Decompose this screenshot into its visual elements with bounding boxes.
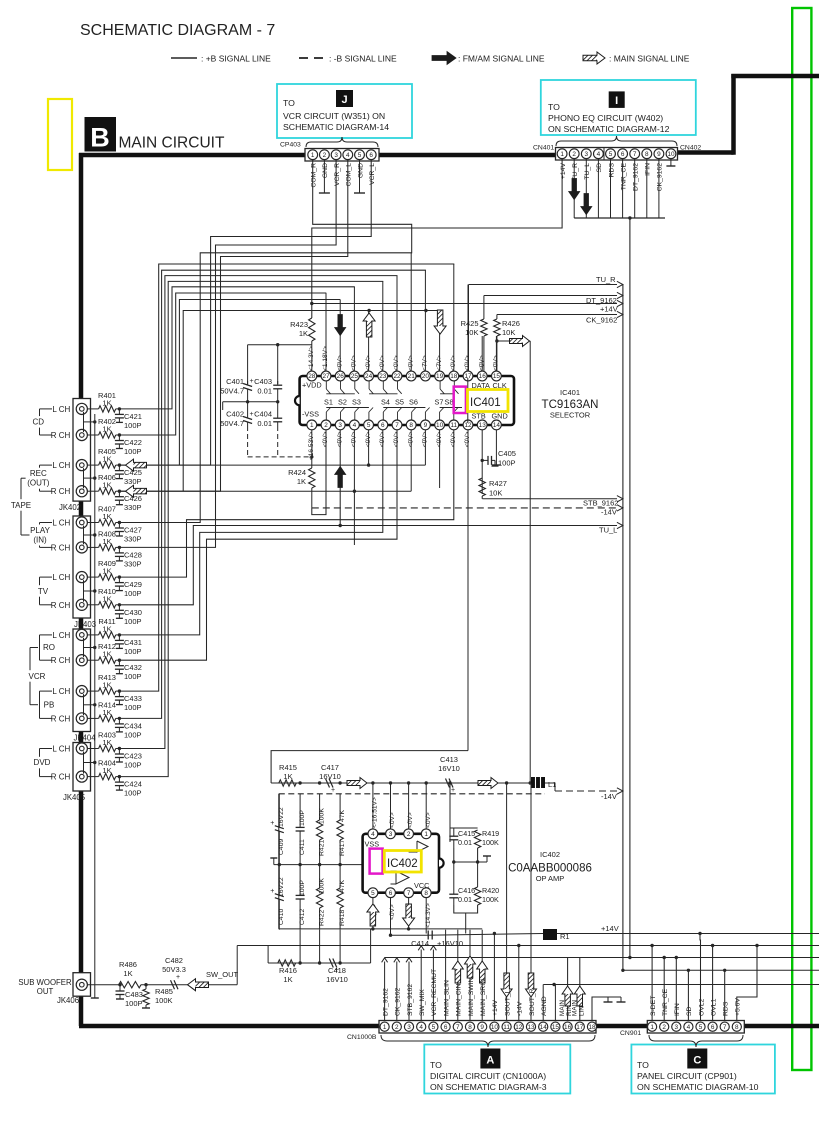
svg-text:47K: 47K <box>339 879 346 892</box>
connector CN401 pin 1 <box>557 149 567 159</box>
wires CN1000B pins 6-9 to ic402 rail <box>445 930 447 1021</box>
callout box J to VCR circuit <box>277 84 412 138</box>
svg-text:+: + <box>250 411 254 418</box>
jack pair ground link <box>83 526 85 545</box>
svg-text:+: + <box>176 974 180 981</box>
group label RO <box>43 642 55 654</box>
svg-text:VSS: VSS <box>365 840 380 849</box>
IC401 pin 9 <box>421 420 431 430</box>
IC401 pin 2 <box>321 420 331 430</box>
svg-text:13: 13 <box>479 422 487 429</box>
IC402 highlight yellow <box>384 851 421 873</box>
svg-text:8: 8 <box>468 1024 472 1031</box>
svg-text:4: 4 <box>353 422 357 429</box>
svg-text:1K: 1K <box>102 766 111 775</box>
RCA jack TV R <box>76 599 87 610</box>
svg-text:S4: S4 <box>381 398 390 407</box>
svg-text:C413: C413 <box>440 755 458 764</box>
svg-text:R CH: R CH <box>51 656 71 665</box>
wire CP403 pin3 route to PLAY R <box>120 160 336 548</box>
wire pin4 stub down <box>353 430 355 545</box>
svg-text:10K: 10K <box>465 328 478 337</box>
svg-text:1K: 1K <box>102 708 111 717</box>
connector CN1000B pin 4 <box>417 1022 426 1031</box>
svg-text:R415: R415 <box>279 763 297 772</box>
svg-text:R416: R416 <box>279 966 297 975</box>
connector CN1000B pin 5 <box>429 1022 438 1031</box>
svg-text:COM_L: COM_L <box>346 163 353 187</box>
svg-text:C424: C424 <box>124 780 142 789</box>
jack group box JK404 <box>73 629 91 732</box>
svg-text:330P: 330P <box>124 477 142 486</box>
svg-text:GND: GND <box>357 163 364 178</box>
svg-text:100P: 100P <box>124 789 142 798</box>
svg-text:SOUT_R: SOUT_R <box>529 988 536 1016</box>
RCA jack CD R <box>76 429 87 440</box>
IC401 pin 6 <box>378 420 388 430</box>
svg-text:CN402: CN402 <box>680 145 701 152</box>
svg-text:1K: 1K <box>102 567 111 576</box>
svg-text:JK405: JK405 <box>63 793 86 802</box>
svg-text:OP AMP: OP AMP <box>536 874 565 883</box>
wire jack TV R to resistor <box>87 604 98 606</box>
wire DVD R after resistor <box>116 776 120 778</box>
capacitor C428 <box>118 547 120 553</box>
IC401 pin 3 <box>335 420 345 430</box>
svg-text:S5: S5 <box>395 398 404 407</box>
svg-text:CN401: CN401 <box>533 145 554 152</box>
svg-text:OVL2: OVL2 <box>698 998 705 1016</box>
connector CN401 pin 9 <box>654 149 664 159</box>
wire CN1000B pin13 SOUT_R from IC402 rail <box>530 784 532 1021</box>
wire pin14 gnd <box>495 430 497 465</box>
svg-text:<0V>: <0V> <box>425 812 432 828</box>
svg-text:MAIN_SWIN: MAIN_SWIN <box>468 977 475 1016</box>
thick border top segment between connectors <box>677 150 734 155</box>
svg-text:L CH: L CH <box>52 573 70 582</box>
svg-text:C418: C418 <box>328 966 346 975</box>
svg-text:R427: R427 <box>489 479 507 488</box>
svg-text:VCR_L: VCR_L <box>369 163 376 185</box>
RCA jack PB L <box>76 686 87 697</box>
svg-text:4: 4 <box>371 831 375 838</box>
wire CN1000B pin14 AGND <box>542 985 544 1021</box>
resistor R417 <box>339 794 341 820</box>
connector CN1000B pin 6 <box>441 1022 450 1031</box>
svg-text:<0V>: <0V> <box>389 904 396 920</box>
svg-text:1K: 1K <box>102 481 111 490</box>
svg-text:R CH: R CH <box>51 543 71 552</box>
resistor R421 <box>319 794 321 820</box>
svg-text:100K: 100K <box>155 996 173 1005</box>
wire CD R after resistor <box>116 434 120 436</box>
wire mid rail C401-C404 <box>223 401 278 403</box>
group label DVD <box>34 757 50 769</box>
rail C414 +14V <box>391 934 734 936</box>
wire nest pin20 to PB R <box>120 270 426 718</box>
capacitor C426 <box>118 491 120 497</box>
svg-text:C402: C402 <box>226 410 244 419</box>
svg-text:MAIN: MAIN <box>559 1000 566 1016</box>
svg-text:C401: C401 <box>226 377 244 386</box>
svg-text:TU_R: TU_R <box>572 163 579 181</box>
svg-text:4: 4 <box>419 1024 423 1031</box>
svg-text:-14V: -14V <box>517 1001 524 1016</box>
svg-text:7: 7 <box>723 1024 727 1031</box>
wire CP403 pin1 route to PLAY L <box>120 160 412 523</box>
svg-text:VCC: VCC <box>414 881 429 890</box>
group label TV <box>37 585 49 597</box>
IC401 highlight yellow around IC401 text <box>468 390 509 412</box>
wire R416 C418 <box>268 962 371 964</box>
wire jack PLAY L to resistor <box>87 522 98 524</box>
svg-text:16: 16 <box>564 1024 572 1031</box>
rail AGND right <box>543 984 819 986</box>
svg-text:10K: 10K <box>502 328 515 337</box>
svg-text:(IN): (IN) <box>33 536 47 545</box>
connector CP403 pin 3 <box>331 150 341 160</box>
svg-text:100P: 100P <box>124 617 142 626</box>
IC401 pin 11 <box>449 420 459 430</box>
capacitor C429 <box>118 577 120 583</box>
svg-text:2: 2 <box>572 151 576 158</box>
connector CN401 pin 10 <box>666 149 676 159</box>
svg-text:R486: R486 <box>119 960 137 969</box>
wire vdd top rail <box>248 344 312 346</box>
svg-text:21: 21 <box>408 373 416 380</box>
svg-text:RDS: RDS <box>723 1001 730 1016</box>
svg-text:1K: 1K <box>283 772 292 781</box>
svg-text:11: 11 <box>503 1024 510 1031</box>
CP403 gnd wire pin5 <box>359 160 361 194</box>
svg-text:MAIN CIRCUIT: MAIN CIRCUIT <box>119 135 225 152</box>
group label REC OUT <box>26 468 51 489</box>
wire DVD L after resistor <box>116 748 120 750</box>
connector CP403 pin 5 <box>355 150 365 160</box>
svg-text:MAIN_CIN: MAIN_CIN <box>456 983 463 1016</box>
svg-text:A: A <box>486 1055 494 1067</box>
svg-text:330P: 330P <box>124 503 142 512</box>
svg-text:10: 10 <box>491 1024 499 1031</box>
wires CN1000B pins 4-5 <box>420 950 422 1021</box>
svg-text:7: 7 <box>456 1024 460 1031</box>
svg-text:S1: S1 <box>324 398 333 407</box>
svg-text:+: + <box>331 787 335 794</box>
svg-text:1K: 1K <box>102 425 111 434</box>
svg-text:28: 28 <box>308 373 316 380</box>
svg-text:<14.3V>: <14.3V> <box>425 903 432 928</box>
svg-text:SCHEMATIC DIAGRAM - 7: SCHEMATIC DIAGRAM - 7 <box>80 22 275 39</box>
IC401 pin 23 <box>378 371 388 381</box>
IC402 bottom pin wires <box>372 898 374 930</box>
svg-text:IC402: IC402 <box>540 850 560 859</box>
capacitor C410 <box>278 865 280 896</box>
RCA jack TV L <box>76 572 87 583</box>
jack group box JK403 <box>73 516 91 618</box>
svg-text:OUT: OUT <box>37 987 54 996</box>
thick border top-right segment <box>731 74 819 79</box>
svg-text:: +B SIGNAL LINE: : +B SIGNAL LINE <box>201 54 271 64</box>
svg-text:1K: 1K <box>102 681 111 690</box>
connector CN401 pin 2 <box>569 149 579 159</box>
green highlight rectangle <box>792 8 811 1070</box>
RCA jack RO R <box>76 655 87 666</box>
svg-text:C410: C410 <box>278 909 285 925</box>
IC401 pin 19 <box>435 371 445 381</box>
rail +14V right <box>557 933 819 935</box>
svg-text:R426: R426 <box>502 319 520 328</box>
svg-text:C415: C415 <box>458 829 475 838</box>
connector CN401 pin 6 <box>618 149 628 159</box>
svg-text:MAIN: MAIN <box>571 1000 578 1016</box>
wires CN1000B pins 16-17 <box>567 958 569 1021</box>
svg-text:17: 17 <box>576 1024 584 1031</box>
IC401 pin 13 <box>477 420 487 430</box>
svg-text:C421: C421 <box>124 412 142 421</box>
sub woofer jack JK406 <box>73 973 91 997</box>
RCA jack PLAY L <box>76 517 87 528</box>
IC401 internal switch group bottom S7-S8 <box>440 407 462 409</box>
wire CP403 pin6 route to REC L <box>120 160 371 466</box>
svg-text:8: 8 <box>735 1024 739 1031</box>
svg-text:C482: C482 <box>165 956 183 965</box>
capacitor C422 <box>118 435 120 441</box>
svg-text:C411: C411 <box>299 839 306 855</box>
svg-text:R CH: R CH <box>51 714 71 723</box>
svg-text:100P: 100P <box>124 703 142 712</box>
svg-text:MAIN_SLIN: MAIN_SLIN <box>443 980 450 1016</box>
connector CN901 pin 2 <box>660 1022 669 1031</box>
svg-text:C416: C416 <box>458 886 475 895</box>
wire pin10 stub <box>439 430 441 488</box>
capacitor C418 <box>329 959 333 968</box>
svg-text:100P: 100P <box>299 810 306 826</box>
IC401 pin 27 <box>321 371 331 381</box>
CN901 brace <box>649 1035 743 1047</box>
MAIN arrows up CN1000B pins 7-9 <box>452 961 463 983</box>
connector CN901 pin 4 <box>684 1022 693 1031</box>
svg-text:<-16.51V>: <-16.51V> <box>372 797 379 828</box>
FM/AM arrow up under pin3 <box>335 467 346 488</box>
svg-text:L CH: L CH <box>52 631 70 640</box>
svg-text:C409: C409 <box>278 839 285 855</box>
wire R427 to STB rail <box>481 496 483 499</box>
junction +14V branch <box>310 302 313 305</box>
svg-text:: MAIN SIGNAL LINE: : MAIN SIGNAL LINE <box>609 54 690 64</box>
group label CD <box>32 416 44 428</box>
C415 R419 bottom link <box>454 848 478 862</box>
svg-text:VCR_RECMUT: VCR_RECMUT <box>431 969 438 1016</box>
MAIN arrow into subwoofer <box>188 979 209 991</box>
IC401 inner divider <box>467 378 469 423</box>
svg-text:3: 3 <box>407 1024 411 1031</box>
svg-text:TAPE: TAPE <box>11 501 31 510</box>
svg-text:S3: S3 <box>352 398 361 407</box>
wire pin9 stub <box>424 430 426 466</box>
svg-text:1K: 1K <box>102 624 111 633</box>
RCA jack DVD L <box>76 743 87 754</box>
svg-text:C483: C483 <box>125 990 143 999</box>
C416 R420 <box>453 862 455 887</box>
svg-text:DVD: DVD <box>34 758 51 767</box>
connector CP403 pin 6 <box>366 150 376 160</box>
svg-text:R418: R418 <box>339 910 346 926</box>
jack pair ground link <box>83 752 85 774</box>
IC402 opamp triangle bottom <box>396 871 409 884</box>
wire pin6 to RO L <box>120 430 383 635</box>
svg-text:5: 5 <box>371 890 375 897</box>
group label PLAY IN <box>30 525 51 546</box>
svg-text:STB_9162: STB_9162 <box>583 498 618 507</box>
svg-text:6: 6 <box>711 1024 715 1031</box>
svg-text:STB_9162: STB_9162 <box>407 984 414 1016</box>
dashed vss box <box>247 426 249 457</box>
connector CN1000B pin 18 <box>587 1022 596 1031</box>
svg-text:100P: 100P <box>124 589 142 598</box>
IC401 pin 24 <box>364 371 374 381</box>
wire jack RO R to resistor <box>87 659 98 661</box>
svg-text:RDS: RDS <box>608 163 615 178</box>
svg-text:1K: 1K <box>102 512 111 521</box>
wire PLAY R after resistor <box>116 546 120 548</box>
svg-text:JK404: JK404 <box>73 734 96 743</box>
capacitor C423 <box>118 749 120 755</box>
svg-text:11: 11 <box>450 422 457 429</box>
svg-text:14: 14 <box>540 1024 548 1031</box>
IC402 pin 8 <box>421 888 431 898</box>
wire nest pin25 to CD L <box>120 287 355 409</box>
svg-text:R CH: R CH <box>51 601 71 610</box>
svg-text:8: 8 <box>645 151 649 158</box>
wire CN1000B pin15 <box>554 985 556 1021</box>
ferrite bead R1 <box>543 929 557 940</box>
connector CN901 pin 1 <box>648 1022 657 1031</box>
VCR group bracket <box>29 648 31 705</box>
svg-text:8: 8 <box>424 890 428 897</box>
svg-text:C429: C429 <box>124 580 142 589</box>
RCA jack PB R <box>76 713 87 724</box>
svg-text:TO: TO <box>283 98 295 108</box>
CN402 pin10 gnd <box>670 159 672 167</box>
wire pins24-19 link <box>369 310 440 312</box>
bus vertical line A from CN401 junction <box>629 218 631 958</box>
IC401 pin 25 <box>350 371 360 381</box>
wire PB R after resistor <box>116 717 120 719</box>
svg-text:CD: CD <box>33 418 45 427</box>
resistor R485 <box>143 989 149 1005</box>
wire pin2 to R424 net <box>312 430 326 515</box>
IC401 top pin stub wires <box>495 336 497 371</box>
svg-text:1: 1 <box>383 1024 387 1031</box>
RCA jack CD L <box>76 403 87 414</box>
svg-text:C405: C405 <box>498 449 516 458</box>
svg-text:1K: 1K <box>102 398 111 407</box>
svg-text:14: 14 <box>493 422 501 429</box>
connector CN1000B pin 3 <box>404 1022 413 1031</box>
callout box C to panel circuit <box>631 1045 775 1094</box>
svg-text:2: 2 <box>395 1024 399 1031</box>
RCA jack RO L <box>76 629 87 640</box>
wires CN1000B pins 1-3 to bus rails <box>385 957 819 959</box>
svg-text:18: 18 <box>450 373 458 380</box>
IC402 pin 1 <box>421 829 431 839</box>
IC402 left columns <box>278 863 281 866</box>
connector CN401 pin 5 <box>606 149 616 159</box>
svg-text:L CH: L CH <box>52 461 70 470</box>
IC401 pin 10 <box>435 420 445 430</box>
connector CN1000B pin 9 <box>478 1022 487 1031</box>
bus vertical line B collector <box>622 285 624 971</box>
svg-text:<0V>: <0V> <box>389 812 396 828</box>
svg-text:IC401: IC401 <box>470 397 501 409</box>
wire CP403 pin4 route to REC R <box>120 160 348 492</box>
svg-text:100P: 100P <box>124 447 142 456</box>
svg-text:1K: 1K <box>102 594 111 603</box>
wire CN1000B pin10 +14V <box>493 934 495 1021</box>
IC402 pin 7 <box>404 888 414 898</box>
svg-text:C428: C428 <box>124 550 142 559</box>
svg-text:-14V: -14V <box>601 792 617 801</box>
jack pair ground link <box>83 412 85 432</box>
svg-text:DIGITAL CIRCUIT (CN1000A): DIGITAL CIRCUIT (CN1000A) <box>430 1071 546 1081</box>
svg-text:100P: 100P <box>498 459 516 468</box>
wire REC L after resistor <box>116 464 120 466</box>
svg-text:12: 12 <box>515 1024 523 1031</box>
capacitor C425 <box>118 465 120 471</box>
wire RO L after resistor <box>116 634 120 636</box>
wire pin8 stub down <box>410 430 412 492</box>
wire IC402 top rail <box>271 782 531 784</box>
svg-text:1: 1 <box>650 1024 654 1031</box>
connector CN401 pin 3 <box>581 149 591 159</box>
svg-text:100K: 100K <box>482 838 499 847</box>
svg-text:15: 15 <box>552 1024 560 1031</box>
svg-text:47K: 47K <box>339 809 346 822</box>
svg-text:TU_L: TU_L <box>584 163 591 180</box>
IC401 pin 16 <box>477 371 487 381</box>
wire pin12 to R415 <box>271 751 468 783</box>
IC401 pin 12 <box>463 420 473 430</box>
yellow highlight rectangle <box>48 99 72 170</box>
jack ground bus <box>94 414 96 998</box>
svg-text:25: 25 <box>351 373 359 380</box>
svg-text:1K: 1K <box>102 650 111 659</box>
svg-text:R420: R420 <box>482 886 499 895</box>
svg-text:SELECTOR: SELECTOR <box>550 411 591 420</box>
svg-text:L CH: L CH <box>52 745 70 754</box>
wire mid rail IC402 left <box>274 864 363 866</box>
IC402 pin 4 <box>368 829 378 839</box>
svg-text:+14V: +14V <box>600 305 618 314</box>
svg-text:9: 9 <box>480 1024 484 1031</box>
svg-text:CP403: CP403 <box>280 142 301 149</box>
svg-text:100P: 100P <box>124 730 142 739</box>
svg-text:12: 12 <box>464 422 472 429</box>
svg-text:SW_OUT: SW_OUT <box>206 970 239 979</box>
rail y930 bottom of IC402 <box>279 928 482 930</box>
svg-text:1: 1 <box>560 151 564 158</box>
IC401 pin 26 <box>335 371 345 381</box>
svg-text:IC402: IC402 <box>387 858 418 870</box>
IC401 pin 17 <box>463 371 473 381</box>
connector CN1000B pin 8 <box>465 1022 474 1031</box>
connector CN1000B pin 14 <box>539 1022 548 1031</box>
wire pin7 to RO R <box>120 430 397 661</box>
connector CN901 pin 6 <box>708 1022 717 1031</box>
wire PB L after resistor <box>116 690 120 692</box>
IC402 pin 2 <box>404 829 414 839</box>
svg-text:C427: C427 <box>124 526 142 535</box>
